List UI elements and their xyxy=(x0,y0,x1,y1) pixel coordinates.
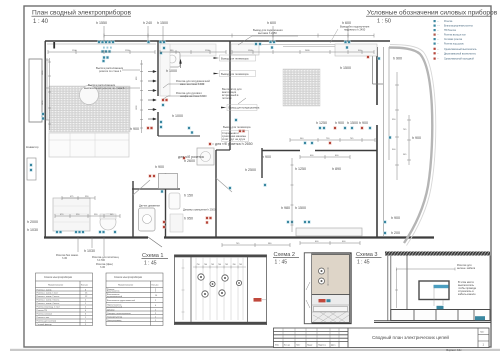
node outlet curve mid h900 xyxy=(388,136,391,139)
legend item tv socket xyxy=(434,29,457,32)
wire dim bedroom xyxy=(290,138,375,142)
wire dim mid ticks extra xyxy=(76,50,362,54)
svg-text:Розетка в пол: Розетка в пол xyxy=(37,317,51,319)
wire dim right vert2 xyxy=(407,115,411,165)
svg-text:Розетка с зазем. 3 поста: Розетка с зазем. 3 поста xyxy=(37,300,61,302)
wire dim vert left inner xyxy=(48,58,51,130)
svg-text:h 1500: h 1500 xyxy=(157,21,168,25)
scheme2 outer xyxy=(305,253,352,324)
scheme1 dim row xyxy=(193,266,246,268)
wire right cavity wall xyxy=(384,47,390,237)
scheme3 right edge xyxy=(489,256,491,321)
table circle living xyxy=(80,86,99,105)
svg-text:Конвектор: Конвектор xyxy=(26,145,39,149)
scheme3 cabinet xyxy=(391,310,490,321)
scheme1 bottom bar xyxy=(174,322,267,325)
scheme1 spot F xyxy=(219,290,225,296)
node wc red xyxy=(182,156,185,159)
legend item floor socket xyxy=(434,34,467,37)
wire dim right vert xyxy=(395,72,399,180)
wire left wall xyxy=(44,41,46,237)
wire leader bedroom top xyxy=(330,29,338,43)
svg-text:h 150: h 150 xyxy=(184,193,193,197)
svg-text:h 900: h 900 xyxy=(335,121,344,125)
node bedroom wall row xyxy=(318,126,321,129)
svg-text:- -: - - xyxy=(437,59,439,61)
svg-text:Розетка под духов.: Розетка под духов. xyxy=(444,44,464,46)
balcony glazing curve xyxy=(389,48,432,244)
wire leader arrows wall1 xyxy=(140,60,143,133)
scheme1 top bar xyxy=(174,255,267,258)
tv unit bottom xyxy=(296,228,362,236)
wire dim vchain left xyxy=(45,58,49,120)
svg-text:1 : 45: 1 : 45 xyxy=(275,260,288,266)
svg-text:Подпись: Подпись xyxy=(318,345,326,347)
scheme2 dim vert xyxy=(327,268,329,285)
scheme3 floor xyxy=(374,321,491,323)
node bottomleft wall outlets xyxy=(55,230,58,233)
scheme1 hanger lines xyxy=(196,257,243,320)
wire dim top inner xyxy=(48,50,155,54)
node wall1 arrows cluster xyxy=(148,70,156,120)
svg-text:h 1000: h 1000 xyxy=(172,114,183,118)
node hall outlets xyxy=(234,118,237,121)
titleblock outer xyxy=(274,328,490,348)
node red h900 living xyxy=(146,126,149,129)
svg-text:h 200: h 200 xyxy=(391,231,400,235)
svg-text:Розетка с зазем.: Розетка с зазем. xyxy=(37,290,53,292)
wire dim bottomleft upper xyxy=(62,196,95,200)
svg-text:Выключатель: Выключатель xyxy=(107,291,120,293)
rug hatch living room xyxy=(49,86,130,132)
scheme1 spot A xyxy=(198,274,204,280)
wire hall jog xyxy=(216,149,230,151)
svg-text:h 1030: h 1030 xyxy=(84,249,95,253)
svg-text:Диммер освещения h 2500: Диммер освещения h 2500 xyxy=(183,207,216,211)
sofa inner xyxy=(49,133,129,157)
svg-text:выключателей розеток по стене: выключателей розеток по стене 1 xyxy=(84,86,125,90)
scheme3 left wall lines xyxy=(388,256,407,321)
door swing bath xyxy=(133,178,232,195)
svg-text:Список электроприборов: Список электроприборов xyxy=(114,276,143,279)
wire leader kitchen2 xyxy=(163,96,204,99)
svg-text:h 600: h 600 xyxy=(267,21,276,25)
wire dim vchain living xyxy=(291,158,294,232)
svg-text:Диммер: Диммер xyxy=(107,310,115,312)
node outlets h1500 xyxy=(159,40,162,43)
wc fixtures xyxy=(169,193,180,209)
scheme1 spot E xyxy=(202,291,208,297)
legend item switch 1-key xyxy=(434,48,478,51)
svg-text:- -: - - xyxy=(437,35,439,37)
svg-text:- -: - - xyxy=(437,44,439,46)
titleblock right box xyxy=(478,328,489,348)
svg-text:ТВ Розетка: ТВ Розетка xyxy=(444,30,457,32)
scheme2 red mark xyxy=(319,299,326,302)
node outlets h600 right xyxy=(344,40,347,43)
svg-text:1 : 50: 1 : 50 xyxy=(377,19,391,25)
scheme2 left strip xyxy=(305,253,312,324)
svg-text:- -: - - xyxy=(437,21,439,23)
door mark top wall xyxy=(53,42,55,49)
scheme3 dim vert xyxy=(395,269,398,308)
svg-text:одноклавишный: одноклавишный xyxy=(107,295,122,298)
svg-text:- -: - - xyxy=(437,53,439,55)
scheme2 bench xyxy=(314,307,348,312)
svg-text:745: 745 xyxy=(225,264,228,266)
scheme3 ceiling hatch xyxy=(385,252,490,256)
svg-text:h 2500: h 2500 xyxy=(245,168,256,172)
svg-text:Вывод для телевизора: Вывод для телевизора xyxy=(223,125,251,129)
svg-text:Формат А3х: Формат А3х xyxy=(446,348,462,352)
title legend top-right xyxy=(366,9,498,25)
wire dim top outer xyxy=(104,26,348,42)
svg-text:Одноклавишный выключатель: Одноклавишный выключатель xyxy=(444,48,477,51)
scheme3 dim top xyxy=(397,268,456,271)
svg-text:h 900: h 900 xyxy=(130,127,139,131)
scheme3 cabinet dividers xyxy=(414,310,474,321)
svg-text:Вывод для телевизора: Вывод для телевизора xyxy=(221,57,249,61)
svg-text:Влагозащищенная розетка: Влагозащищенная розетка xyxy=(444,26,473,28)
title top-left xyxy=(32,9,132,26)
bottom page-edge shadow xyxy=(10,349,500,351)
svg-text:h 1030: h 1030 xyxy=(27,228,38,232)
wire dim bedroom2 xyxy=(300,155,350,159)
node outlet right wall h900 xyxy=(366,55,369,58)
armchair xyxy=(100,214,116,230)
svg-text:h 30: h 30 xyxy=(62,256,68,260)
wire dim top inner2 xyxy=(160,50,226,54)
scheme1 dim numbers xyxy=(197,264,243,266)
svg-text:Розетка для вытяжки: Розетка для вытяжки xyxy=(37,321,57,323)
legend item socket xyxy=(434,20,454,23)
svg-text:h 1250: h 1250 xyxy=(295,167,306,171)
svg-text:h 900: h 900 xyxy=(262,155,271,159)
wire hall wall2 xyxy=(215,150,217,237)
svg-text:Терморегулятор: Терморегулятор xyxy=(107,317,123,319)
svg-text:Кол-во: Кол-во xyxy=(152,284,160,286)
node bath red small xyxy=(160,190,163,193)
wire leader kitchen1 xyxy=(163,84,204,88)
node kitchen outlets mid xyxy=(159,120,162,123)
wire kitchen wall xyxy=(157,41,159,136)
svg-text:Вывод для телевизора: Вывод для телевизора xyxy=(221,72,249,76)
svg-text:Лист: Лист xyxy=(480,332,484,334)
svg-text:Розетка с зазем. 2 поста: Розетка с зазем. 2 поста xyxy=(37,296,61,298)
svg-text:745: 745 xyxy=(239,264,242,266)
svg-text:Лист: Лист xyxy=(296,345,300,347)
scheme2 door arc xyxy=(306,282,310,308)
node outlets h1550 row1 xyxy=(97,40,100,43)
svg-text:шкафа на стене h 940: шкафа на стене h 940 xyxy=(180,94,207,98)
wire dim top right xyxy=(232,50,374,54)
svg-text:- -: - - xyxy=(437,30,439,32)
table2 frame xyxy=(106,273,163,326)
pilaster left xyxy=(29,59,42,122)
node bedroom bottom row xyxy=(303,141,306,144)
svg-text:- -: - - xyxy=(437,49,439,51)
callout boxes xyxy=(220,55,258,142)
island table xyxy=(53,198,90,231)
svg-text:Сетевой фильтр: Сетевой фильтр xyxy=(37,323,53,326)
svg-text:Электропривод: Электропривод xyxy=(107,320,122,322)
wire right interior wall xyxy=(376,47,378,237)
hall cabinet xyxy=(231,44,259,55)
svg-text:потолок: потолок xyxy=(222,97,232,100)
svg-text:Светорег. выкл-переключ.: Светорег. выкл-переключ. xyxy=(107,313,132,315)
scheme1 verticals xyxy=(175,255,267,326)
svg-text:кабель-канале: кабель-канале xyxy=(458,292,476,296)
node outlet h240 xyxy=(147,40,150,43)
scheme3 tv blue xyxy=(434,285,449,288)
kitchen sink bowl xyxy=(168,55,176,63)
svg-text:Условные обозначения силовых п: Условные обозначения силовых приборов xyxy=(367,9,498,17)
bath vanity sink xyxy=(143,215,152,224)
svg-text:- -: - - xyxy=(437,39,439,41)
svg-text:Двухклавишный выключатель: Двухклавишный выключатель xyxy=(444,52,477,55)
table1 frame xyxy=(36,273,93,326)
scheme3 blue outlet mid xyxy=(437,306,444,309)
island inner xyxy=(53,206,90,222)
scheme1 left dim xyxy=(182,259,185,320)
legend items xyxy=(434,20,478,61)
svg-text:h 1500: h 1500 xyxy=(340,66,351,70)
svg-text:Выключатель двухклавишный: Выключатель двухклавишный xyxy=(107,299,135,302)
legend item waterproof socket xyxy=(434,25,474,28)
wire leader h2450 xyxy=(238,36,298,45)
svg-text:Кол.уч: Кол.уч xyxy=(284,345,290,347)
node outlets h1550 mid light xyxy=(103,47,112,49)
legend item pass switch xyxy=(434,58,475,61)
svg-text:Датчик движения: Датчик движения xyxy=(139,204,160,208)
svg-text:h 980: h 980 xyxy=(281,206,290,210)
svg-text:Изм: Изм xyxy=(275,345,279,347)
scheme1 dim ticks xyxy=(196,266,238,269)
bed hatch bedroom xyxy=(283,69,320,106)
wire top right sill xyxy=(373,47,384,84)
svg-text:План сводный электроприборов: План сводный электроприборов xyxy=(32,9,131,17)
wire dim bottom mid2 xyxy=(300,241,360,245)
scheme2 blue mark xyxy=(327,299,331,302)
node tv wall outlets xyxy=(286,220,289,223)
svg-text:Кол-во: Кол-во xyxy=(81,284,89,286)
washer circle xyxy=(201,152,211,162)
legend item switch 2-key xyxy=(434,52,477,55)
node kitchen red cluster xyxy=(161,98,164,101)
svg-text:Розетка выход в пол: Розетка выход в пол xyxy=(444,35,466,37)
wire top wall thin inner xyxy=(47,44,374,47)
svg-text:750: 750 xyxy=(197,264,200,266)
node right low outlets xyxy=(383,220,386,223)
legend item oven socket xyxy=(434,43,465,46)
svg-text:Силовая розетка: Силовая розетка xyxy=(444,39,463,41)
wire bath wall2 xyxy=(165,173,167,237)
svg-text:h 1550: h 1550 xyxy=(96,21,107,25)
svg-text:Розетки без зазем.: Розетки без зазем. xyxy=(56,253,79,257)
svg-text:760: 760 xyxy=(218,264,221,266)
svg-text:наружного h 2450: наружного h 2450 xyxy=(344,28,366,32)
titleblock inner lines xyxy=(274,328,349,348)
scheme1 spot C xyxy=(210,281,215,286)
wire leader bottom texts xyxy=(78,236,104,256)
svg-text:одноклавишный: одноклавишный xyxy=(107,305,122,308)
scheme3 blue outlet right xyxy=(475,316,485,320)
scheme1 spot B xyxy=(222,275,228,281)
svg-text:Наименование: Наименование xyxy=(48,284,64,286)
svg-text:h 2000: h 2000 xyxy=(27,220,38,224)
wire dim bottom mid xyxy=(222,243,290,247)
node outlets h1550 row3 xyxy=(102,56,105,59)
svg-text:розеток по стене 1: розеток по стене 1 xyxy=(99,69,122,73)
svg-text:h 1700: h 1700 xyxy=(97,258,105,262)
svg-text:1 : 40: 1 : 40 xyxy=(33,19,49,25)
svg-text:антенн. кабеля: антенн. кабеля xyxy=(457,266,476,270)
svg-text:маш. на стене h 940: маш. на стене h 940 xyxy=(180,82,205,86)
kitchen counter xyxy=(160,44,216,56)
svg-text:h 2600: h 2600 xyxy=(184,159,195,163)
svg-text:h 890: h 890 xyxy=(332,167,341,171)
svg-text:- --: - -- xyxy=(437,26,440,28)
svg-text:h 600: h 600 xyxy=(342,21,351,25)
node left pilaster outlets xyxy=(29,163,32,166)
svg-text:h 900: h 900 xyxy=(393,57,402,61)
wire dim top outer chain xyxy=(104,34,374,38)
svg-text:вытяжки h 2450: вытяжки h 2450 xyxy=(258,31,277,35)
balcony outer curve xyxy=(390,45,436,246)
svg-text:№док: №док xyxy=(307,344,312,347)
sofa outline xyxy=(49,133,129,157)
washer box xyxy=(197,148,214,165)
svg-text:Розетка ТВ: Розетка ТВ xyxy=(37,310,48,312)
wire hall short wall xyxy=(261,148,263,178)
svg-text:745: 745 xyxy=(211,264,214,266)
kitchen counter left xyxy=(160,44,170,96)
svg-text:h 950: h 950 xyxy=(184,216,193,220)
legend item power socket xyxy=(434,38,463,41)
svg-text:1 : 45: 1 : 45 xyxy=(357,260,370,266)
wire leader tb xyxy=(212,143,214,145)
svg-text:Наименование: Наименование xyxy=(118,284,134,286)
svg-text:h 1000: h 1000 xyxy=(166,69,177,73)
wire bath wall xyxy=(132,181,134,237)
scheme3 tv xyxy=(419,281,449,300)
node outlets h1550 row2 xyxy=(101,50,104,53)
svg-text:Розетка с зазем. 4 поста: Розетка с зазем. 4 поста xyxy=(37,303,61,305)
scheme1 spot D xyxy=(236,280,241,285)
scheme2 mat xyxy=(313,312,349,322)
svg-text:стоят друг на друге: стоят друг на друге xyxy=(222,138,246,141)
kitchen sink xyxy=(164,52,180,67)
svg-text:Розетка силовая: Розетка силовая xyxy=(37,314,52,316)
armchair back xyxy=(100,214,116,219)
svg-text:h 900: h 900 xyxy=(155,165,164,169)
wire kitchen bottom wall xyxy=(158,135,200,137)
svg-text:Розетка влагозащ. 1 пост: Розетка влагозащ. 1 пост xyxy=(37,307,61,309)
svg-text:h 1500 h 900: h 1500 h 900 xyxy=(347,121,368,125)
wire bedroom divider wall xyxy=(262,150,377,152)
node outlets h600 left xyxy=(269,40,272,43)
bath vanity xyxy=(139,208,156,231)
svg-text:для т/б розетка h 2650: для т/б розетка h 2650 xyxy=(215,142,253,146)
node bath door red xyxy=(208,142,211,145)
svg-text:Розетка с зазем. 1 пост: Розетка с зазем. 1 пост xyxy=(37,293,59,295)
scheme2 beige room xyxy=(312,255,350,295)
wardrobe top right xyxy=(335,44,377,56)
scheme2 tile floor xyxy=(312,295,350,323)
svg-text:h 900: h 900 xyxy=(391,216,400,220)
svg-text:760: 760 xyxy=(233,264,236,266)
bath cabinet above xyxy=(159,174,178,189)
svg-text:Список электроприборов: Список электроприборов xyxy=(44,276,73,279)
wire bottom wall xyxy=(44,236,434,238)
wire leader vent xyxy=(238,98,246,104)
svg-text:1 : 45: 1 : 45 xyxy=(144,261,157,267)
scheme1 red switch xyxy=(254,298,267,302)
svg-text:h 30: h 30 xyxy=(100,265,106,269)
svg-text:h 240: h 240 xyxy=(143,21,152,25)
pilaster left lower xyxy=(27,158,36,180)
svg-text:Одноклавишный проходной: Одноклавишный проходной xyxy=(444,58,474,61)
svg-text:760: 760 xyxy=(204,264,207,266)
wire dim bottomleft xyxy=(55,214,120,218)
svg-text:h 1500: h 1500 xyxy=(295,206,306,210)
node mid low cluster xyxy=(263,183,266,186)
svg-text:Вывод для кондиционера: Вывод для кондиционера xyxy=(229,106,260,110)
wire hall wall xyxy=(229,41,231,150)
svg-text:Розетка: Розетка xyxy=(444,21,453,23)
scheme3 leader xyxy=(434,287,443,306)
svg-text:h 900: h 900 xyxy=(412,136,421,140)
svg-text:h 1250: h 1250 xyxy=(316,121,327,125)
svg-text:Сводный план электрических цеп: Сводный план электрических цепей xyxy=(372,334,449,340)
wire top wall xyxy=(45,40,390,42)
scheme2 spot circles xyxy=(319,268,325,284)
wire leader wall1 text xyxy=(118,70,140,88)
node bath red cluster xyxy=(205,216,208,219)
wire bath top wall xyxy=(132,188,180,190)
